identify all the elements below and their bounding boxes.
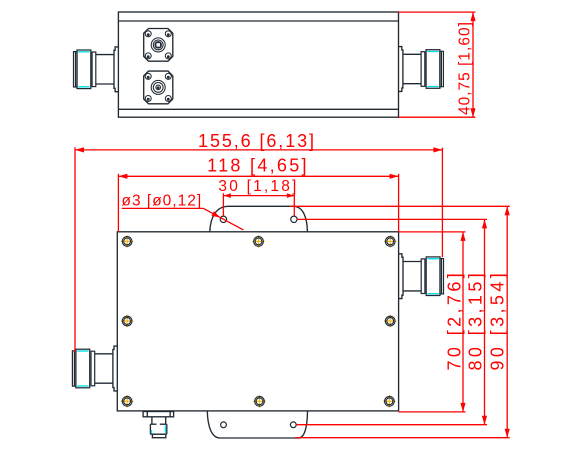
cover screw 8 [383, 395, 395, 407]
dim 80 top extension [297, 218, 487, 220]
dim 118 arrow right [390, 174, 399, 179]
dim 90 top extension [290, 205, 510, 207]
bottom SMA connector J5 (pointing down) [143, 412, 174, 438]
bottom mounting tab [207, 411, 307, 438]
top view right N connector J2 [399, 47, 444, 92]
bottom view right N connector J3 [399, 254, 444, 299]
dim 70 arrow up [460, 232, 465, 241]
svg-text:ø3 [ø0,12]: ø3 [ø0,12] [122, 193, 203, 210]
dim 80 arrow down [482, 416, 487, 425]
dim 30 dimension line [223, 195, 294, 197]
dim 155,6 right extension [441, 148, 443, 257]
top tab hole right [291, 216, 297, 222]
cover screw 7 [253, 395, 265, 407]
dim 155,6 left extension [74, 147, 76, 352]
dim 70 bottom extension [399, 411, 466, 413]
svg-text:30 [1,18]: 30 [1,18] [218, 178, 298, 195]
flange connector B (top view, round center pin) [144, 71, 173, 104]
bottom view left N connector J4 [72, 346, 117, 391]
dim 118 right extension [398, 174, 400, 232]
dim text 40,75 [1,60] [457, 21, 474, 115]
dim 90 arrow down [505, 429, 510, 438]
dim 80 bottom extension [296, 424, 487, 426]
top tab hole left [220, 216, 226, 222]
cover screw 5 [384, 315, 396, 327]
svg-text:118 [4,65]: 118 [4,65] [207, 155, 309, 175]
dim text ø3 [ø0,12] [122, 193, 203, 210]
svg-text:90 [3,54]: 90 [3,54] [488, 270, 508, 371]
flange connector A (top view, square center pin) [144, 29, 173, 62]
dim 30 right extension [293, 193, 295, 216]
bottom tab hole left [221, 422, 227, 428]
dim 90 arrow up [505, 206, 510, 215]
svg-text:40,75 [1,60]: 40,75 [1,60] [457, 21, 474, 115]
bottom tab hole right [290, 422, 296, 428]
dim text 155,6 [6,13] [198, 131, 316, 151]
cover screw 6 [121, 395, 133, 407]
dim 118 dimension line [118, 175, 398, 177]
cover screw 4 [121, 315, 133, 327]
dim 40,75 arrow up [470, 12, 475, 21]
dim 40,75 extension line top [399, 11, 476, 13]
dim 40,75 extension line bottom [399, 116, 476, 118]
dim 90 bottom extension [295, 437, 510, 439]
dim text 90 [3,54] [488, 270, 508, 371]
top mounting tab [210, 206, 308, 232]
leader line for hole callout [122, 208, 244, 230]
svg-text:155,6 [6,13]: 155,6 [6,13] [198, 131, 316, 151]
dim 30 arrow right [287, 193, 295, 198]
dim 155,6 dimension line [75, 149, 442, 151]
dim text 118 [4,65] [207, 155, 309, 175]
dim 40,75 dimension line [472, 12, 474, 117]
top view upper edge line [118, 20, 398, 22]
dim 30 left extension [222, 193, 224, 216]
dim 80 arrow up [482, 219, 487, 228]
dim 118 left extension [117, 174, 119, 232]
top view lower edge line [118, 108, 398, 110]
cover screw 3 [384, 235, 396, 247]
dim text 30 [1,18] [218, 178, 298, 195]
dim 40,75 arrow down [470, 108, 475, 117]
dim 70 arrow down [460, 403, 465, 412]
cover screw 2 [252, 235, 264, 247]
bottom view body outline [117, 232, 398, 411]
dim 80 dimension line [484, 219, 486, 424]
dim 90 dimension line [506, 206, 508, 437]
svg-text:80 [3,15]: 80 [3,15] [466, 270, 486, 371]
top view body outline [118, 12, 398, 117]
svg-text:70 [2,76]: 70 [2,76] [445, 270, 465, 371]
dim 70 top extension [399, 231, 466, 233]
dim 118 arrow left [118, 174, 127, 179]
cover screw 1 [121, 235, 133, 247]
dim text 70 [2,76] [445, 270, 465, 371]
dim 70 dimension line [462, 232, 464, 412]
dim 30 arrow left [223, 193, 231, 198]
dim 155,6 arrow left [75, 147, 84, 152]
dim 155,6 arrow right [433, 147, 442, 152]
top view left N connector J1 [74, 47, 119, 92]
dim text 80 [3,15] [466, 270, 486, 371]
